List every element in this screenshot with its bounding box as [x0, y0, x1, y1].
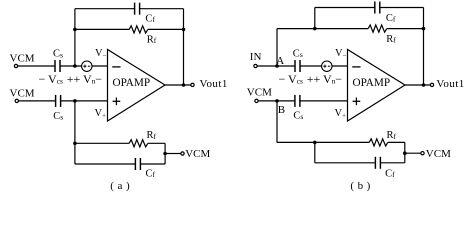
wire (b) node B vertical [276, 101, 278, 142]
svg-text:( b ): ( b ) [350, 180, 370, 192]
wire (a) bottom Rf branch left [75, 142, 129, 144]
junction Cf tap (b) top [313, 27, 317, 31]
wire (a) top Rf branch left [75, 28, 129, 30]
svg-text:VCM: VCM [247, 87, 272, 99]
capacitor Cf (a) bottom feedback [135, 158, 140, 170]
svg-text:Cf: Cf [145, 13, 155, 24]
terminal VCM input V- (a) [14, 64, 17, 67]
svg-text:OPAMP: OPAMP [353, 77, 391, 89]
wire (b) bottom feedback right vertical [404, 142, 406, 162]
wire (a) non-inverting input [19, 100, 108, 102]
wire (b) bottom Rf branch left [277, 141, 369, 143]
wire (a) output [165, 84, 191, 86]
wire (a) bottom Rf branch right [148, 142, 165, 144]
svg-text:VCM: VCM [10, 88, 35, 100]
terminal VCM input V+ (a) [15, 99, 18, 102]
junction Rf branch left (a) [73, 28, 77, 32]
capacitor Cs (b) non-inverting input [295, 95, 300, 107]
wire (b) top Rf branch left [277, 28, 368, 30]
svg-text:IN: IN [250, 51, 262, 63]
svg-text:( a ): ( a ) [110, 180, 130, 192]
junction Rf branch right (a) [182, 28, 186, 32]
op-amp OPAMP (a) [108, 50, 166, 122]
junction VCM stub (a) [163, 152, 167, 156]
wire (a) bottom feedback right vertical [164, 143, 166, 164]
junction Rf branch right (b) [422, 27, 426, 31]
svg-text:− Vcs++ Vn−: − Vcs++ Vn− [39, 72, 103, 86]
wire (b) non-inverting input [258, 100, 347, 102]
capacitor Cf (b) bottom feedback [375, 157, 380, 169]
resistor Rf (b) top feedback [368, 25, 387, 32]
svg-text:OPAMP: OPAMP [113, 77, 151, 89]
svg-text:Cf: Cf [385, 168, 395, 179]
svg-text:Cs: Cs [53, 111, 63, 122]
svg-text:Rf: Rf [147, 34, 157, 45]
terminal IN (b) [254, 64, 257, 67]
capacitor Cs (a) inverting input [55, 60, 60, 72]
wire (a) top Rf branch right [148, 28, 184, 30]
wire (a) top feedback right vertical [183, 9, 185, 85]
terminal VCM feedback (b) [421, 152, 424, 155]
junction bottom Rf tap (a) [73, 142, 77, 146]
wire (b) bottom Cf branch [315, 162, 405, 164]
capacitor Cf (a) top feedback [135, 3, 140, 15]
wire (b) VCM stub [405, 152, 421, 154]
svg-text:VCM: VCM [185, 148, 210, 160]
svg-text:Rf: Rf [387, 130, 397, 141]
svg-text:V−: V− [95, 48, 107, 60]
junction Cf tap (b) bottom [313, 141, 317, 145]
wire (a) top feedback Cf branch [75, 8, 184, 10]
capacitor Cs (b) inverting input [295, 60, 300, 72]
junction node B (b) [275, 99, 279, 103]
wire (b) bottom Rf branch right [388, 141, 405, 143]
svg-text:VCM: VCM [10, 53, 35, 65]
noise source Vn (a) [82, 61, 92, 71]
svg-text:V+: V+ [335, 108, 347, 120]
wire (a) bottom Cf branch [75, 163, 165, 165]
junction feedback tap on V- input (a) [73, 64, 77, 68]
junction feedback tap on V+ input (a) [73, 99, 77, 103]
svg-text:Cf: Cf [386, 13, 396, 24]
resistor Rf (a) bottom feedback [129, 140, 148, 147]
wire (b) top Rf branch right [387, 28, 424, 30]
wire (b) node A vertical [276, 29, 278, 66]
svg-text:Vout1: Vout1 [200, 78, 228, 90]
terminal VCM (b) [255, 99, 258, 102]
svg-text:V−: V− [335, 48, 347, 60]
svg-text:Cs: Cs [293, 111, 303, 122]
svg-text:Cs: Cs [293, 48, 303, 59]
svg-text:B: B [278, 104, 285, 116]
capacitor Cf (b) top feedback [375, 2, 380, 14]
wire (b) top Cf vertical [314, 8, 316, 29]
resistor Rf (a) top feedback [129, 26, 148, 33]
terminal Vout1 (a) [191, 83, 194, 86]
wire (a) inverting input [18, 65, 108, 67]
wire (b) top Cf branch [315, 7, 424, 9]
wire (a) bottom feedback left vertical [74, 101, 76, 164]
svg-text:V+: V+ [95, 108, 107, 120]
wire (b) bottom Cf vertical [314, 142, 316, 162]
op-amp OPAMP (b) [348, 50, 406, 122]
junction output feedback tap (b) [422, 83, 426, 87]
svg-text:− Vcs++ Vn−: − Vcs++ Vn− [279, 72, 343, 86]
wire (b) inverting input [257, 65, 347, 67]
svg-text:Cf: Cf [146, 168, 156, 179]
resistor Rf (b) bottom feedback [369, 139, 388, 146]
wire (a) top feedback left vertical [74, 9, 76, 66]
junction VCM stub (b) [403, 151, 407, 155]
svg-text:Vout1: Vout1 [436, 78, 464, 90]
capacitor Cs (a) non-inverting input [56, 95, 61, 107]
wire (a) VCM stub [165, 153, 181, 155]
wire (b) output [405, 84, 430, 86]
junction output feedback tap (a) [182, 83, 186, 87]
noise source Vn (b) [322, 61, 332, 71]
svg-text:Rf: Rf [147, 130, 157, 141]
svg-text:Rf: Rf [386, 34, 396, 45]
svg-text:Cs: Cs [53, 49, 63, 60]
terminal VCM feedback (a) [181, 152, 184, 155]
svg-text:VCM: VCM [426, 148, 451, 160]
wire (b) top feedback right vertical [423, 8, 425, 86]
terminal Vout1 (b) [430, 83, 433, 86]
junction node A (b) [275, 64, 279, 68]
